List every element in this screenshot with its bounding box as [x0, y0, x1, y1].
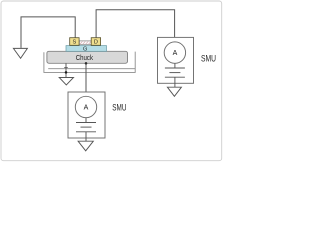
- ground triangle G4 (below SMU2): [167, 87, 181, 96]
- ground triangle G2 (below chuck-left): [59, 78, 73, 85]
- ground triangle G3 (below SMU1): [78, 141, 93, 151]
- wire battery to box bottom and ground: [85, 132, 87, 141]
- ammeter A2: [164, 42, 185, 63]
- svg-text:G: G: [83, 47, 87, 53]
- junction dot at chuck bottom: [85, 62, 88, 65]
- wire from D pad to SMU2: [96, 10, 175, 42]
- battery B2: [165, 68, 185, 77]
- channel hatch strip between S and D: [79, 41, 91, 44]
- svg-text:A: A: [173, 50, 178, 57]
- insulator plate line under chuck: [48, 68, 135, 70]
- small tick on stem: [64, 67, 68, 69]
- svg-text:SMU: SMU: [201, 53, 216, 63]
- wire chuck to SMU1: [85, 63, 87, 96]
- SMU2 box (right): [158, 37, 194, 83]
- svg-text:S: S: [73, 40, 77, 46]
- svg-text:Chuck: Chuck: [76, 53, 93, 62]
- canvas background: [0, 0, 223, 162]
- wire from ground G1 to S pad: [21, 17, 75, 48]
- wire ammeter to battery B1: [85, 118, 87, 123]
- chuck: [47, 51, 128, 63]
- drain pad D: [91, 38, 100, 46]
- battery B1: [76, 123, 96, 132]
- source pad S: [70, 38, 79, 46]
- wire battery to box bottom and ground: [174, 77, 176, 87]
- ground triangle G1 (top-left): [13, 48, 27, 58]
- ammeter A1: [75, 96, 96, 117]
- wire ammeter to battery B2: [174, 63, 176, 68]
- svg-text:A: A: [84, 105, 89, 112]
- page border frame: [1, 1, 222, 161]
- SMU1 box (bottom): [68, 92, 105, 138]
- junction dot on bracket: [65, 71, 68, 74]
- shield bracket around chuck: [44, 52, 135, 73]
- chuck ground stem wire: [65, 63, 67, 77]
- gate layer G (cyan): [66, 46, 107, 52]
- svg-text:SMU: SMU: [112, 103, 126, 113]
- svg-text:D: D: [94, 40, 98, 46]
